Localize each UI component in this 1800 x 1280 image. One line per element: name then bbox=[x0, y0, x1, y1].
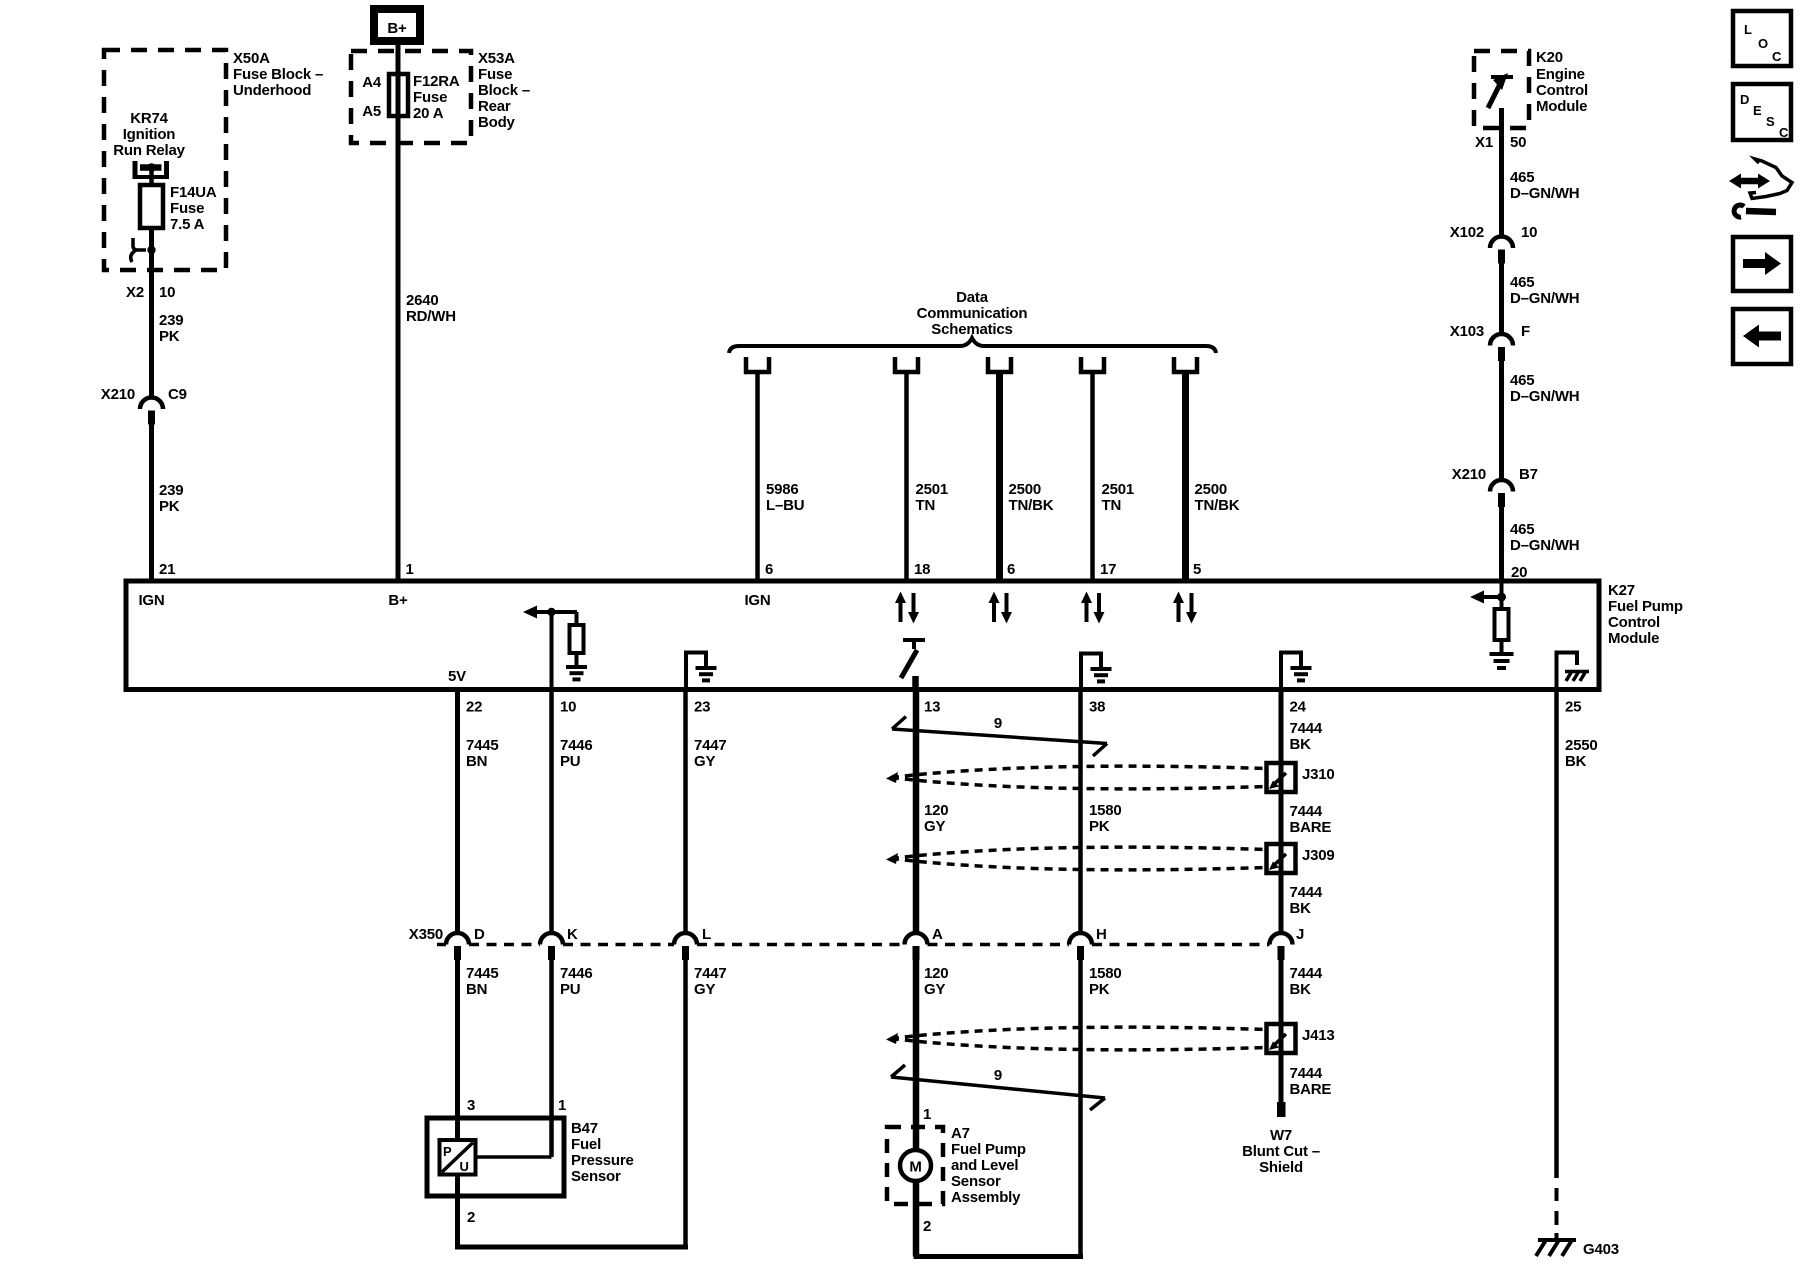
svg-text:21: 21 bbox=[159, 561, 175, 578]
svg-text:9: 9 bbox=[994, 1067, 1002, 1084]
svg-text:38: 38 bbox=[1089, 699, 1105, 716]
svg-text:7447: 7447 bbox=[694, 965, 727, 982]
svg-text:X350: X350 bbox=[409, 926, 443, 943]
svg-text:BK: BK bbox=[1290, 900, 1312, 917]
svg-text:2501: 2501 bbox=[916, 481, 949, 498]
module internal serial data arrows (pin 18) bbox=[895, 592, 919, 624]
pin label X2 | 10 bbox=[126, 284, 175, 301]
module internal serial data arrows (pin 6) bbox=[989, 592, 1013, 624]
svg-text:Shield: Shield bbox=[1259, 1159, 1303, 1176]
module internal chassis ground (pin 25 net) bbox=[1557, 653, 1590, 690]
svg-text:PK: PK bbox=[1089, 981, 1110, 998]
svg-text:BARE: BARE bbox=[1290, 819, 1332, 836]
power node B+ bbox=[374, 9, 420, 41]
svg-text:W7: W7 bbox=[1270, 1127, 1292, 1144]
twisted pair symbol (120 GY / 1580 PK lower) bbox=[886, 847, 1266, 870]
label J413 bbox=[1302, 1027, 1335, 1044]
svg-text:7447: 7447 bbox=[694, 737, 727, 754]
svg-text:10: 10 bbox=[1521, 224, 1537, 241]
switch inside K20 bbox=[1488, 73, 1513, 108]
wire label 2501 TN (right) bbox=[1102, 481, 1135, 514]
svg-text:U: U bbox=[460, 1159, 469, 1174]
pin 1 label bbox=[406, 561, 414, 578]
pin label A5 bbox=[362, 103, 381, 120]
label F14UA Fuse 7.5 A bbox=[170, 184, 217, 233]
wire label 7444 BARE (lower) bbox=[1290, 1065, 1332, 1098]
svg-text:PK: PK bbox=[159, 498, 180, 515]
wire 7444 BARE J310-J309 bbox=[1279, 790, 1284, 875]
label A7 Fuel Pump and Level Sensor Assembly bbox=[951, 1125, 1026, 1206]
wire 7445 BN upper bbox=[455, 689, 460, 932]
connector X210 C9 (in-line) bbox=[140, 398, 163, 425]
pin 3 label (B47) bbox=[467, 1097, 475, 1114]
wire 2501 TN to pin 18 bbox=[904, 372, 909, 581]
svg-text:7444: 7444 bbox=[1290, 720, 1323, 737]
svg-text:Underhood: Underhood bbox=[233, 82, 311, 99]
svg-text:2: 2 bbox=[467, 1209, 475, 1226]
svg-text:239: 239 bbox=[159, 482, 183, 499]
svg-text:2500: 2500 bbox=[1009, 481, 1042, 498]
wire X103 to X210 bbox=[1499, 361, 1504, 480]
svg-text:G403: G403 bbox=[1583, 1241, 1619, 1258]
wire label 120 GY (lower) bbox=[924, 965, 948, 998]
svg-text:O: O bbox=[1758, 36, 1768, 51]
svg-text:GY: GY bbox=[924, 981, 945, 998]
wire X102 to X103 bbox=[1499, 263, 1504, 334]
svg-text:X210: X210 bbox=[101, 386, 135, 403]
svg-text:Fuel Pump: Fuel Pump bbox=[951, 1141, 1026, 1158]
wire B+ to module pin 1 bbox=[396, 45, 401, 581]
fuel pump A7 (dashed outline) bbox=[887, 1127, 943, 1204]
svg-text:GY: GY bbox=[924, 818, 945, 835]
svg-text:PK: PK bbox=[159, 328, 180, 345]
svg-text:E: E bbox=[1753, 103, 1762, 118]
svg-text:1: 1 bbox=[406, 561, 414, 578]
module pin name B+ (pin 1) bbox=[388, 592, 408, 609]
svg-text:239: 239 bbox=[159, 312, 183, 329]
label X50A Fuse Block - Underhood bbox=[233, 50, 323, 99]
svg-text:J309: J309 bbox=[1302, 847, 1335, 864]
svg-text:24: 24 bbox=[1290, 699, 1307, 716]
connector X350 pin A bbox=[905, 926, 944, 960]
pin 25 label bbox=[1565, 699, 1581, 716]
wire 2550 BK dashed tail bbox=[1555, 1188, 1559, 1239]
svg-text:TN/BK: TN/BK bbox=[1195, 497, 1240, 514]
label W7 Blunt Cut - Shield bbox=[1242, 1127, 1320, 1176]
svg-text:B+: B+ bbox=[388, 592, 408, 609]
pin 6 label (serial) bbox=[1007, 561, 1015, 578]
svg-text:KR74: KR74 bbox=[130, 110, 168, 127]
svg-text:1: 1 bbox=[923, 1106, 931, 1123]
splice J310 (shield junction) bbox=[1267, 763, 1296, 792]
wire label 7446 PU (upper) bbox=[560, 737, 593, 770]
svg-text:22: 22 bbox=[466, 699, 482, 716]
svg-text:7.5 A: 7.5 A bbox=[170, 216, 205, 233]
svg-text:Engine: Engine bbox=[1536, 66, 1585, 83]
module K27 Fuel Pump Control Module (outline) bbox=[126, 581, 1599, 690]
wire 239 PK to module pin 21 bbox=[149, 424, 154, 581]
svg-text:2501: 2501 bbox=[1102, 481, 1135, 498]
wire A7 pin 2 return to 1580 PK bbox=[914, 1254, 1084, 1259]
module internal ground (pin 24 net) bbox=[1281, 653, 1312, 690]
svg-text:6: 6 bbox=[1007, 561, 1015, 578]
svg-text:F14UA: F14UA bbox=[170, 184, 217, 201]
fuse block X50A (dashed enclosure) bbox=[104, 50, 226, 270]
pin 21 label bbox=[159, 561, 175, 578]
svg-text:PU: PU bbox=[560, 981, 580, 998]
svg-text:2: 2 bbox=[923, 1218, 931, 1235]
wire label 239 PK (lower) bbox=[159, 482, 183, 515]
svg-text:and Level: and Level bbox=[951, 1157, 1018, 1174]
svg-text:A7: A7 bbox=[951, 1125, 970, 1142]
svg-text:X103: X103 bbox=[1450, 323, 1484, 340]
wire motor to pin 2 bbox=[913, 1181, 920, 1257]
label X102 | 10 bbox=[1450, 224, 1538, 241]
wire label 465 D-GN/WH (1) bbox=[1510, 169, 1579, 202]
label K27 Fuel Pump Control Module bbox=[1608, 582, 1683, 647]
note 9 twisted-pair annotation (lower) bbox=[891, 1065, 1105, 1110]
label Data Communication Schematics bbox=[917, 289, 1028, 338]
wire B47 pin 2 return to 7447 GY bbox=[455, 1245, 688, 1250]
svg-text:M: M bbox=[909, 1159, 921, 1176]
label X210 | B7 bbox=[1452, 466, 1538, 483]
icon DESC bbox=[1733, 84, 1791, 140]
wire pin 3 into sensor bbox=[455, 1118, 460, 1140]
svg-text:GY: GY bbox=[694, 753, 715, 770]
wire 7447 GY upper bbox=[683, 689, 688, 932]
wire X210 to module pin 20 bbox=[1499, 507, 1504, 581]
note 9 twisted-pair annotation (upper) bbox=[892, 715, 1107, 756]
pin 2 label (B47) bbox=[467, 1209, 475, 1226]
label K20 Engine Control Module bbox=[1536, 49, 1588, 115]
motor M (fuel pump) bbox=[900, 1150, 931, 1181]
svg-text:7444: 7444 bbox=[1290, 884, 1323, 901]
wire label 7444 BARE (upper) bbox=[1290, 803, 1332, 836]
pin 20 label bbox=[1511, 564, 1527, 581]
twisted pair symbol (120 GY / 1580 PK upper) bbox=[886, 766, 1266, 789]
svg-text:BK: BK bbox=[1565, 753, 1587, 770]
svg-text:5986: 5986 bbox=[766, 481, 799, 498]
wire label 120 GY (upper) bbox=[924, 802, 948, 835]
svg-text:7446: 7446 bbox=[560, 737, 593, 754]
wire label 2500 TN/BK (left) bbox=[1009, 481, 1054, 514]
svg-text:3: 3 bbox=[467, 1097, 475, 1114]
svg-text:465: 465 bbox=[1510, 274, 1534, 291]
wire label 465 D-GN/WH (2) bbox=[1510, 274, 1579, 307]
svg-text:K20: K20 bbox=[1536, 49, 1563, 66]
svg-text:D–GN/WH: D–GN/WH bbox=[1510, 290, 1579, 307]
pin 2 label (A7) bbox=[923, 1218, 931, 1235]
svg-text:TN/BK: TN/BK bbox=[1009, 497, 1054, 514]
svg-text:Control: Control bbox=[1608, 614, 1660, 631]
wire 7447 GY lower bbox=[683, 959, 688, 1247]
pin 1 label (A7) bbox=[923, 1106, 931, 1123]
svg-text:A5: A5 bbox=[362, 103, 381, 120]
svg-text:PK: PK bbox=[1089, 818, 1110, 835]
wire label 465 D-GN/WH (4) bbox=[1510, 521, 1579, 554]
pin 6 label (IGN) bbox=[765, 561, 773, 578]
svg-text:TN: TN bbox=[1102, 497, 1122, 514]
wire pin 1 to motor bbox=[913, 1127, 920, 1150]
label G403 bbox=[1583, 1241, 1619, 1258]
svg-text:RD/WH: RD/WH bbox=[406, 308, 456, 325]
module internal ground (pin 38 net) bbox=[1081, 654, 1112, 690]
svg-text:D–GN/WH: D–GN/WH bbox=[1510, 537, 1579, 554]
svg-text:J: J bbox=[1296, 926, 1304, 943]
svg-text:Module: Module bbox=[1608, 630, 1659, 647]
svg-text:A: A bbox=[932, 926, 943, 943]
svg-text:BARE: BARE bbox=[1290, 1081, 1332, 1098]
wire 1580 PK upper bbox=[1078, 689, 1083, 932]
svg-text:BN: BN bbox=[466, 753, 487, 770]
svg-text:Communication: Communication bbox=[917, 305, 1028, 322]
svg-text:7444: 7444 bbox=[1290, 965, 1323, 982]
label X210 | C9 bbox=[101, 386, 187, 403]
pin 10 label bbox=[560, 699, 576, 716]
icon forward arrow bbox=[1733, 237, 1791, 291]
wire 7444 BK to J310 bbox=[1279, 689, 1284, 794]
svg-text:J310: J310 bbox=[1302, 766, 1335, 783]
module internal serial data arrows (pin 17) bbox=[1081, 592, 1105, 624]
svg-text:Blunt Cut –: Blunt Cut – bbox=[1242, 1143, 1320, 1160]
wire 1580 PK lower bbox=[1078, 959, 1083, 1257]
wire label 7447 GY (lower) bbox=[694, 965, 727, 998]
svg-text:1580: 1580 bbox=[1089, 965, 1122, 982]
svg-text:BN: BN bbox=[466, 981, 487, 998]
connector X102 (in-line) bbox=[1490, 237, 1513, 264]
svg-text:A4: A4 bbox=[362, 74, 382, 91]
svg-text:Module: Module bbox=[1536, 98, 1587, 115]
svg-text:PU: PU bbox=[560, 753, 580, 770]
svg-text:Sensor: Sensor bbox=[571, 1168, 621, 1185]
label B47 Fuel Pressure Sensor bbox=[571, 1120, 634, 1185]
svg-text:Sensor: Sensor bbox=[951, 1173, 1001, 1190]
svg-text:Fuel: Fuel bbox=[571, 1136, 601, 1153]
wire 7446 PU upper bbox=[549, 689, 554, 932]
pin 18 label bbox=[914, 561, 930, 578]
svg-text:IGN: IGN bbox=[744, 592, 770, 609]
svg-text:Run Relay: Run Relay bbox=[113, 142, 185, 159]
icon vehicle double-arrow and wrench bbox=[1729, 159, 1792, 217]
splice J413 (shield junction) bbox=[1267, 1024, 1296, 1053]
wire label 7445 BN (lower) bbox=[466, 965, 499, 998]
data link stub (2501 a) bbox=[895, 357, 918, 372]
wire 7446 PU lower bbox=[549, 959, 554, 1118]
relay output hook terminal bbox=[131, 238, 156, 262]
wire label 7445 BN (upper) bbox=[466, 737, 499, 770]
svg-text:Ignition: Ignition bbox=[123, 126, 176, 143]
module pin name IGN (pin 6) bbox=[744, 592, 770, 609]
module internal output arrow and node (pin 10 net) bbox=[523, 606, 577, 690]
pin 17 label bbox=[1100, 561, 1116, 578]
svg-text:5V: 5V bbox=[448, 668, 466, 685]
wire label 239 PK (upper) bbox=[159, 312, 183, 345]
label F12RA Fuse 20 A bbox=[413, 73, 460, 122]
wire 2500 TN/BK to pin 5 bbox=[1182, 372, 1189, 581]
pin 38 label bbox=[1089, 699, 1105, 716]
wire 7444 BK to J413 bbox=[1279, 959, 1284, 1055]
wire label 465 D-GN/WH (3) bbox=[1510, 372, 1579, 405]
svg-text:L: L bbox=[702, 926, 711, 943]
wire pin 2 from sensor bbox=[455, 1175, 460, 1248]
pin 1 label (B47) bbox=[558, 1097, 566, 1114]
connector row X350 (dashed link) bbox=[437, 943, 1270, 947]
module internal pullup arrow (pin 20 net) bbox=[1470, 581, 1506, 609]
svg-text:D–GN/WH: D–GN/WH bbox=[1510, 388, 1579, 405]
connector X350 pin L bbox=[674, 926, 711, 960]
svg-text:6: 6 bbox=[765, 561, 773, 578]
svg-text:F: F bbox=[1521, 323, 1530, 340]
svg-text:Pressure: Pressure bbox=[571, 1152, 634, 1169]
wire label 7447 GY (upper) bbox=[694, 737, 727, 770]
wire 5986 L-BU to pin 6 bbox=[755, 372, 760, 581]
svg-text:Fuse: Fuse bbox=[170, 200, 204, 217]
connector X350 pin J bbox=[1270, 926, 1305, 960]
svg-text:25: 25 bbox=[1565, 699, 1581, 716]
svg-text:Rear: Rear bbox=[478, 98, 511, 115]
svg-text:C: C bbox=[1779, 125, 1789, 140]
wire 7444 BK J309 to X350 bbox=[1279, 871, 1284, 932]
connector X103 (in-line) bbox=[1490, 334, 1513, 361]
twisted pair symbol (120 GY / 1580 PK bottom) bbox=[886, 1027, 1266, 1050]
brace over data links bbox=[729, 338, 1216, 353]
svg-text:5: 5 bbox=[1193, 561, 1201, 578]
fuse F14UA bbox=[140, 185, 163, 228]
fuse block X53A (dashed enclosure) bbox=[351, 51, 471, 143]
wire fuse to X2 pin 10 bbox=[149, 228, 154, 398]
connector X350 pin H bbox=[1069, 926, 1107, 960]
module internal ground (pin 20 net) bbox=[1490, 654, 1514, 668]
label X53A Fuse Block - Rear Body bbox=[478, 50, 530, 131]
svg-text:L: L bbox=[1744, 22, 1752, 37]
svg-text:7446: 7446 bbox=[560, 965, 593, 982]
module internal ground (pin 10 net) bbox=[566, 667, 587, 679]
wire label 2500 TN/BK (right) bbox=[1195, 481, 1240, 514]
module internal resistor (pin 20 net) bbox=[1495, 609, 1509, 653]
svg-text:S: S bbox=[1766, 114, 1775, 129]
svg-text:1: 1 bbox=[558, 1097, 566, 1114]
svg-text:7444: 7444 bbox=[1290, 803, 1323, 820]
svg-text:J413: J413 bbox=[1302, 1027, 1335, 1044]
module pin name IGN (pin 21) bbox=[138, 592, 164, 609]
module internal switch (pin 13 net) bbox=[901, 640, 925, 689]
svg-text:D: D bbox=[474, 926, 485, 943]
engine control module K20 (dashed enclosure) bbox=[1474, 51, 1529, 128]
svg-text:Fuse: Fuse bbox=[413, 89, 447, 106]
svg-text:Body: Body bbox=[478, 114, 516, 131]
wire label 1580 PK (lower) bbox=[1089, 965, 1122, 998]
svg-text:X2: X2 bbox=[126, 284, 144, 301]
data link stub (5986) bbox=[746, 357, 769, 372]
data link stub (2501 b) bbox=[1081, 357, 1104, 372]
svg-text:C9: C9 bbox=[168, 386, 187, 403]
wire K20 to X102 bbox=[1499, 108, 1504, 237]
svg-text:IGN: IGN bbox=[138, 592, 164, 609]
wire label 2640 RD/WH bbox=[406, 292, 456, 325]
svg-text:2500: 2500 bbox=[1195, 481, 1228, 498]
relay KR74 contact symbol bbox=[133, 161, 169, 179]
wire 2500 TN/BK to pin 6 bbox=[996, 372, 1003, 581]
svg-text:20 A: 20 A bbox=[413, 105, 444, 122]
svg-text:X102: X102 bbox=[1450, 224, 1484, 241]
svg-text:GY: GY bbox=[694, 981, 715, 998]
svg-text:Control: Control bbox=[1536, 82, 1588, 99]
svg-text:L–BU: L–BU bbox=[766, 497, 804, 514]
sensor element P/U bbox=[440, 1140, 476, 1175]
wire 2501 TN to pin 17 bbox=[1090, 372, 1095, 581]
svg-text:7444: 7444 bbox=[1290, 1065, 1323, 1082]
wire label 2550 BK bbox=[1565, 737, 1598, 770]
module internal ground (pin 23 net) bbox=[686, 653, 717, 690]
svg-text:D: D bbox=[1740, 92, 1749, 107]
svg-text:F12RA: F12RA bbox=[413, 73, 460, 90]
svg-text:BK: BK bbox=[1290, 736, 1312, 753]
label X350 bbox=[409, 926, 443, 943]
svg-text:C: C bbox=[1772, 49, 1782, 64]
pin 23 label bbox=[694, 699, 710, 716]
wire 7444 BARE below J413 bbox=[1279, 1051, 1284, 1102]
wire label 2501 TN (left) bbox=[916, 481, 949, 514]
connector X210 B7 (in-line) bbox=[1490, 480, 1513, 507]
pin label A4 bbox=[362, 74, 382, 91]
wire label 5986 L-BU bbox=[766, 481, 804, 514]
pin 22 label bbox=[466, 699, 482, 716]
data link stub (2500 a) bbox=[988, 357, 1011, 372]
wire relay to fuse bbox=[149, 169, 154, 186]
wire 7445 BN lower bbox=[455, 959, 460, 1118]
module internal resistor (pin 10 net) bbox=[570, 612, 584, 666]
svg-text:Fuse: Fuse bbox=[478, 66, 512, 83]
svg-text:BK: BK bbox=[1290, 981, 1312, 998]
svg-text:P: P bbox=[443, 1144, 452, 1159]
svg-text:D–GN/WH: D–GN/WH bbox=[1510, 185, 1579, 202]
wire pin 1 into sensor bbox=[477, 1118, 552, 1157]
wire label 7444 BK (lower) bbox=[1290, 965, 1323, 998]
wire label 7446 PU (lower) bbox=[560, 965, 593, 998]
svg-text:X1: X1 bbox=[1475, 134, 1493, 151]
svg-text:7445: 7445 bbox=[466, 965, 499, 982]
svg-text:Fuse Block –: Fuse Block – bbox=[233, 66, 323, 83]
svg-text:K27: K27 bbox=[1608, 582, 1635, 599]
wire 120 GY upper bbox=[913, 689, 920, 932]
splice J309 (shield junction) bbox=[1267, 844, 1296, 873]
svg-text:X210: X210 bbox=[1452, 466, 1486, 483]
svg-text:50: 50 bbox=[1510, 134, 1526, 151]
sensor B47 (outline) bbox=[427, 1118, 564, 1196]
svg-text:H: H bbox=[1096, 926, 1107, 943]
svg-text:465: 465 bbox=[1510, 521, 1534, 538]
label KR74 Ignition Run Relay bbox=[113, 110, 185, 159]
data link stub (2500 b) bbox=[1174, 357, 1197, 372]
svg-text:Assembly: Assembly bbox=[951, 1189, 1021, 1206]
svg-text:17: 17 bbox=[1100, 561, 1116, 578]
svg-text:465: 465 bbox=[1510, 169, 1534, 186]
label X103 | F bbox=[1450, 323, 1530, 340]
label X1 | 50 bbox=[1475, 134, 1526, 151]
wire label 7444 BK (top) bbox=[1290, 720, 1323, 753]
svg-text:1580: 1580 bbox=[1089, 802, 1122, 819]
svg-text:20: 20 bbox=[1511, 564, 1527, 581]
svg-text:Fuel Pump: Fuel Pump bbox=[1608, 598, 1683, 615]
icon LOC bbox=[1733, 11, 1791, 66]
pin 5 label bbox=[1193, 561, 1201, 578]
wire 120 GY lower bbox=[913, 959, 920, 1127]
svg-text:465: 465 bbox=[1510, 372, 1534, 389]
wire 2550 BK bbox=[1554, 689, 1559, 1178]
module internal serial data arrows (pin 5) bbox=[1173, 592, 1197, 624]
svg-text:23: 23 bbox=[694, 699, 710, 716]
fuse F12RA bbox=[389, 74, 408, 116]
